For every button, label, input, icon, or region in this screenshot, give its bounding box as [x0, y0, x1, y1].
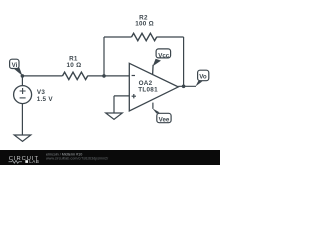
- watermark CircuitLab logo: [9, 156, 40, 164]
- wire output to Vo: [178, 85, 196, 87]
- power flag Vcc wedge pointer: [153, 59, 161, 66]
- voltage source V3 circle: [14, 86, 32, 104]
- svg-text:10 Ω: 10 Ω: [66, 62, 81, 69]
- watermark bar: [0, 150, 220, 165]
- V3 minus sign: [20, 97, 26, 99]
- node flag Vo bubble: [198, 70, 209, 81]
- power pin stub Vcc: [152, 65, 155, 75]
- wire feedback top right segment: [157, 36, 184, 38]
- wire op-amp noninverting input: [114, 96, 129, 113]
- resistor R1: [63, 72, 88, 79]
- op-amp OA2 triangle: [129, 63, 178, 111]
- junction dot output: [182, 85, 186, 89]
- wire feedback left vertical: [103, 37, 105, 76]
- power flag Vee bubble: [157, 113, 171, 122]
- wire Vi node to V3: [21, 76, 23, 86]
- svg-text:Vee: Vee: [159, 116, 170, 123]
- svg-text:100 Ω: 100 Ω: [135, 21, 154, 28]
- ground under V3: [14, 135, 31, 141]
- node flag Vi wedge pointer: [14, 68, 22, 76]
- svg-text:Vo: Vo: [199, 73, 207, 80]
- svg-text:Vcc: Vcc: [158, 52, 170, 59]
- node flag Vi bubble: [10, 59, 19, 68]
- wire R1 to feedback junction: [88, 75, 105, 77]
- junction dot Vi node: [21, 74, 25, 78]
- ground at noninverting input: [106, 113, 123, 119]
- wire feedback top left segment: [104, 36, 132, 38]
- junction dot feedback left: [102, 74, 106, 78]
- power pin stub Vee: [152, 103, 154, 109]
- svg-text:1.5 V: 1.5 V: [37, 96, 54, 103]
- svg-text:LAB: LAB: [29, 159, 39, 164]
- wire V3 to ground: [21, 104, 23, 135]
- resistor R2: [132, 33, 157, 40]
- node flag Vo wedge pointer: [196, 81, 203, 87]
- svg-text:TL081: TL081: [138, 87, 158, 94]
- V3 plus sign: [20, 88, 26, 94]
- power flag Vcc bubble: [156, 49, 171, 58]
- op-amp inverting minus sign: [132, 75, 135, 77]
- op-amp noninverting plus sign: [132, 94, 136, 98]
- wire feedback junction to op-amp inverting input: [104, 75, 129, 77]
- wire input from Vi junction to R1: [22, 75, 62, 77]
- svg-text:Vi: Vi: [12, 62, 18, 69]
- power flag Vee wedge pointer: [152, 108, 159, 113]
- svg-text:www.circuitlab.com/c/7s6z63dps: www.circuitlab.com/c/7s6z63dpsimn2/: [46, 156, 109, 160]
- wire feedback right vertical: [183, 37, 185, 86]
